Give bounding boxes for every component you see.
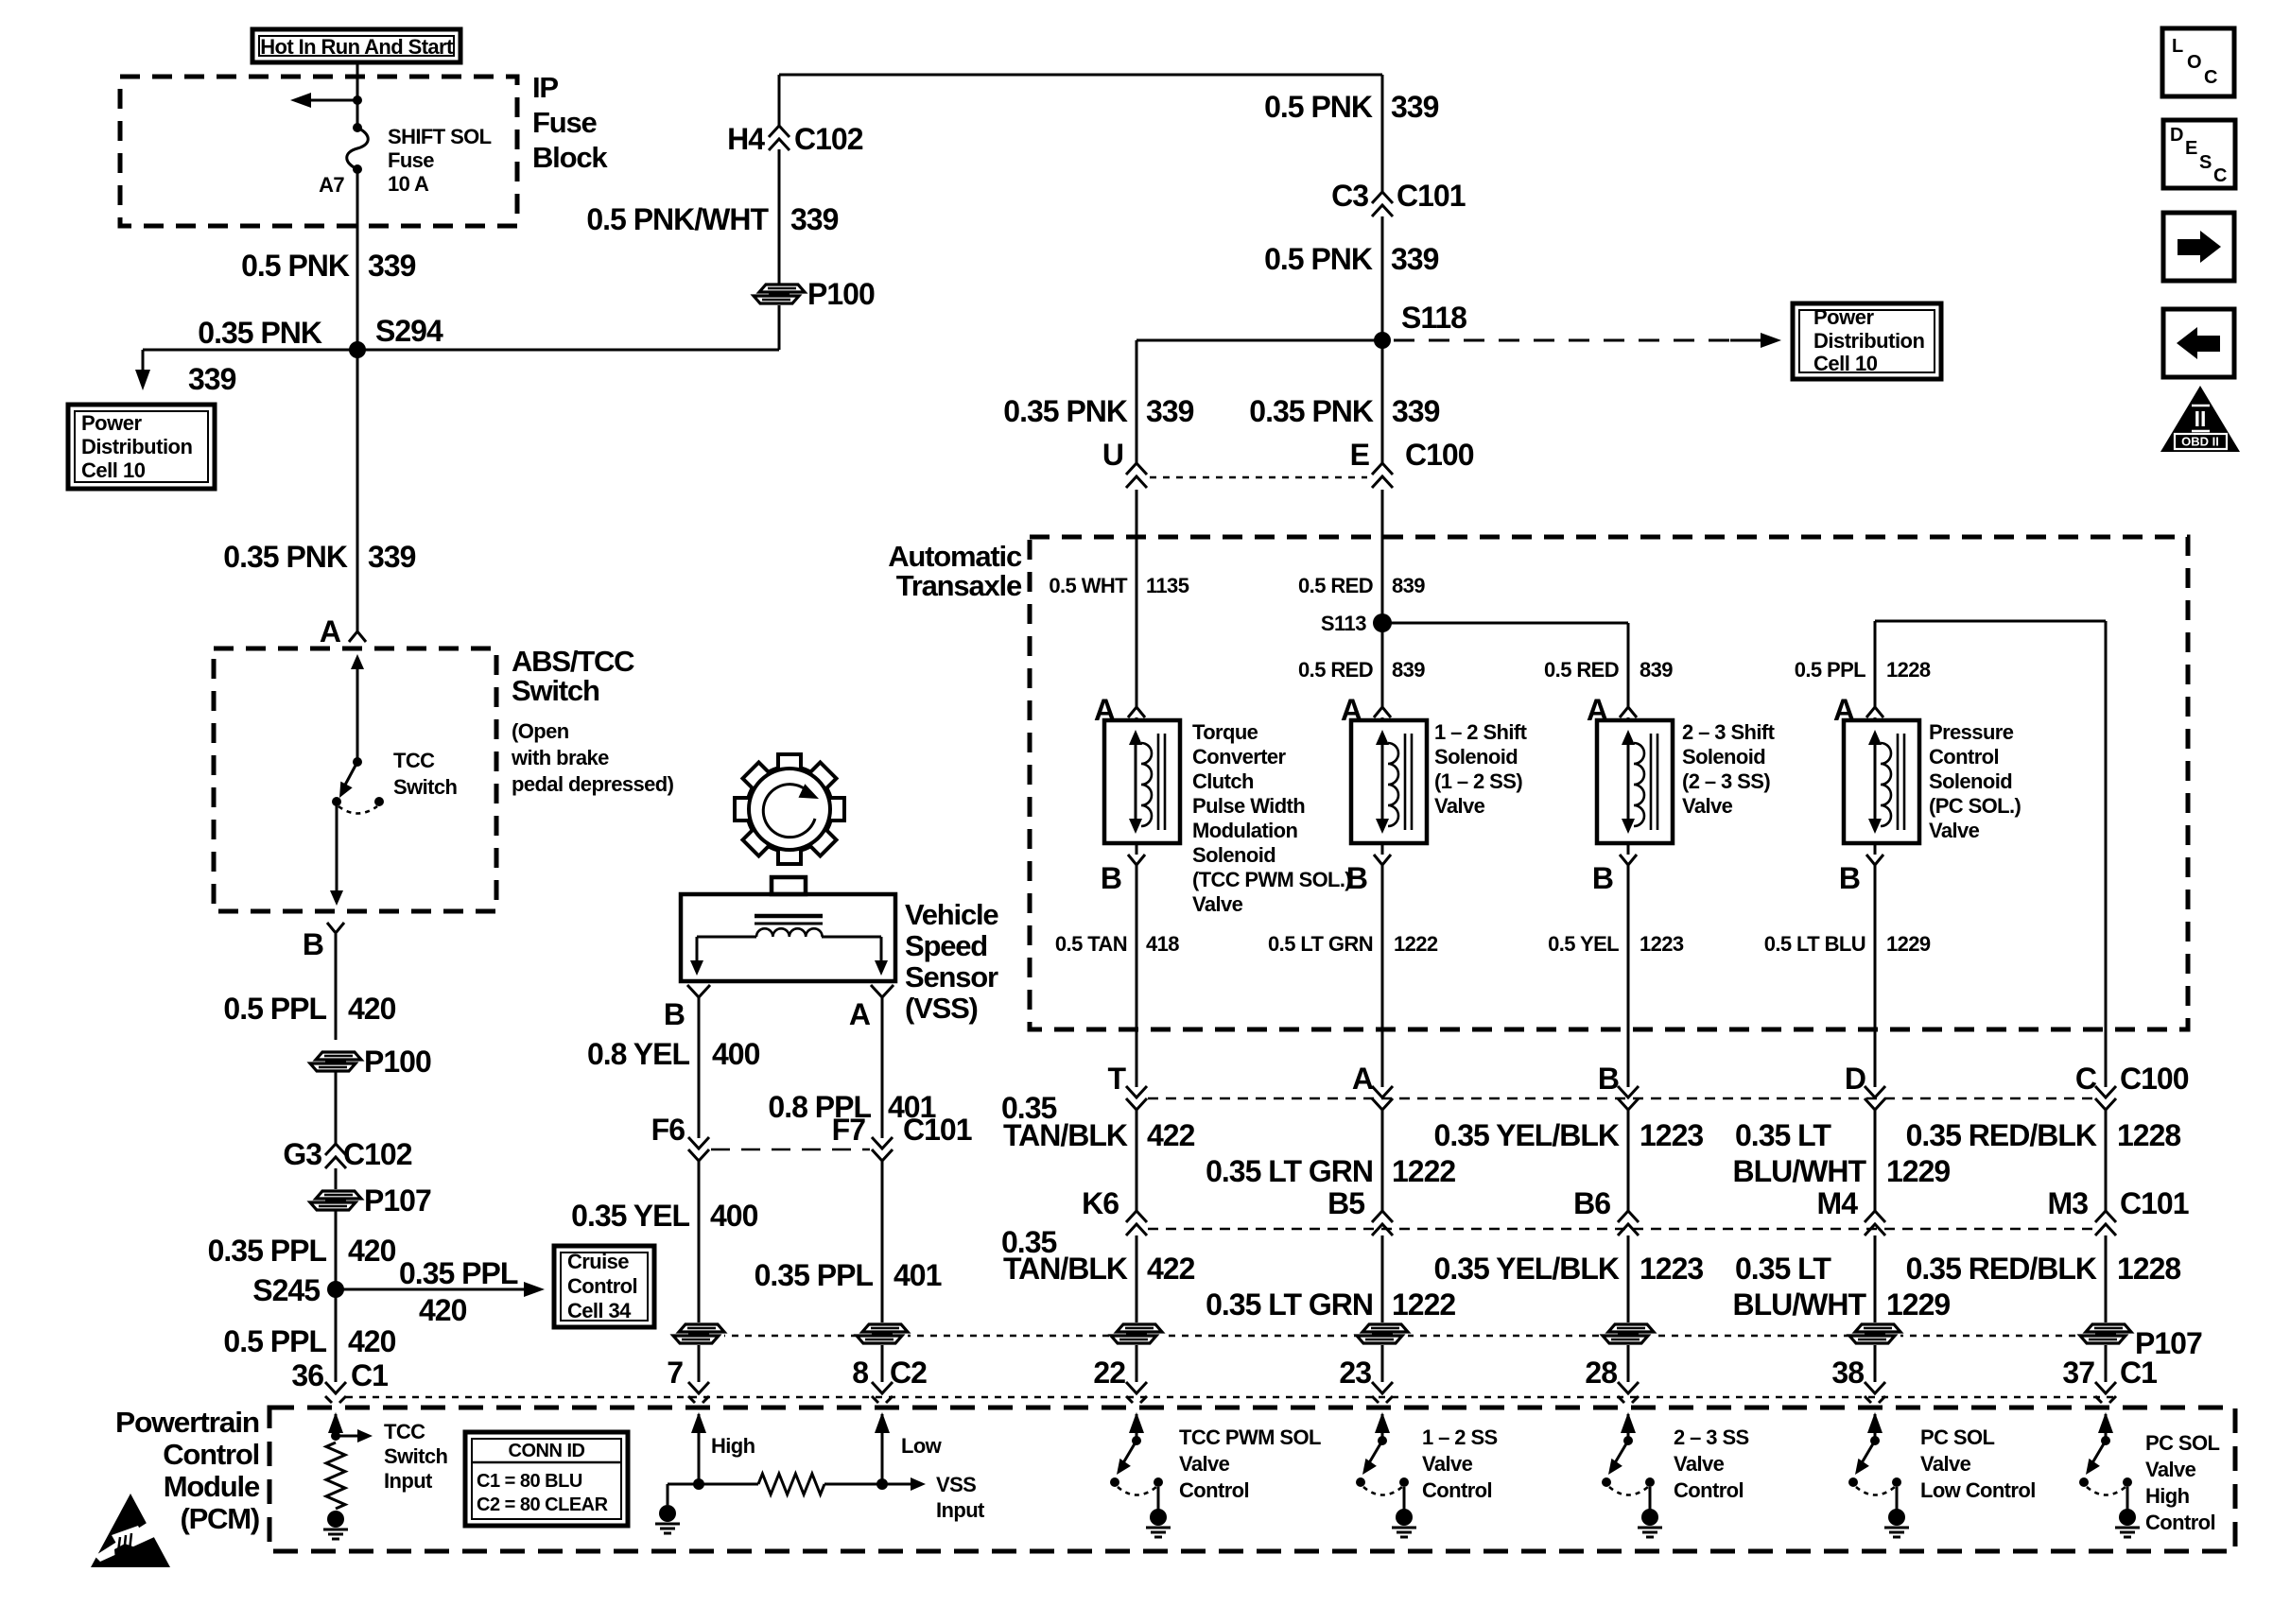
ESD sensitive symbol <box>91 1494 170 1567</box>
svg-text:23: 23 <box>1339 1356 1371 1390</box>
svg-text:0.5 LT GRN: 0.5 LT GRN <box>1268 932 1373 956</box>
label: Pressure Control Solenoid <box>1929 720 2021 842</box>
value label 0.5 PNK 339 <box>241 249 416 283</box>
svg-text:0.5 RED: 0.5 RED <box>1298 658 1373 682</box>
value label 0.35 PNK 339 (U column) <box>1003 394 1193 428</box>
svg-text:1223: 1223 <box>1640 1118 1703 1152</box>
svg-text:(PC SOL.): (PC SOL.) <box>1929 794 2021 818</box>
wire M4 to P107 <box>1874 1235 1877 1322</box>
svg-text:TAN/BLK: TAN/BLK <box>1003 1118 1128 1152</box>
svg-text:1223: 1223 <box>1640 1252 1703 1286</box>
PCM pin 37 (C1) <box>2062 1356 2157 1403</box>
label: 2-3 Shift Solenoid <box>1682 720 1776 818</box>
svg-text:0.5 PPL: 0.5 PPL <box>223 992 326 1026</box>
connector C100 pin T <box>1107 1062 1147 1110</box>
svg-text:C101: C101 <box>1397 179 1466 213</box>
svg-text:T: T <box>1107 1062 1126 1096</box>
VSS terminal B <box>664 985 710 1031</box>
in-line connector P107 (pin 38 wire) <box>1849 1322 1900 1345</box>
value label 0.5 RED 839 (above S113) <box>1298 574 1425 597</box>
wire 0.5 WHT 1135 U to TCC PWM solenoid <box>1136 490 1138 707</box>
svg-text:0.35 LT GRN: 0.35 LT GRN <box>1206 1154 1373 1188</box>
svg-text:0.5 TAN: 0.5 TAN <box>1055 932 1127 956</box>
connector C101 pin B6 <box>1573 1186 1639 1235</box>
label: SHIFT SOL Fuse 10 A <box>388 125 492 196</box>
wire S294 to left branch <box>135 350 357 390</box>
svg-text:Valve: Valve <box>1674 1452 1725 1476</box>
value label 0.35 LT GRN 1222 (row 1) <box>1206 1154 1455 1188</box>
wire P107 to pin 22 <box>1136 1345 1138 1382</box>
svg-text:22: 22 <box>1093 1356 1125 1390</box>
label: TCC Switch <box>393 749 457 799</box>
svg-text:Block: Block <box>532 141 608 174</box>
svg-text:2 – 3 Shift: 2 – 3 Shift <box>1682 720 1776 744</box>
svg-text:Control: Control <box>1422 1478 1492 1502</box>
svg-text:Cell 10: Cell 10 <box>81 458 146 482</box>
solenoid terminal A (2-3 SS) <box>1587 693 1637 727</box>
svg-text:Distribution: Distribution <box>81 435 192 458</box>
svg-text:S245: S245 <box>252 1273 320 1307</box>
icon: DESC <box>2163 120 2235 188</box>
icon: OBD II <box>2160 386 2240 452</box>
svg-text:VSS: VSS <box>936 1473 976 1496</box>
wire K6 to P107 <box>1136 1235 1138 1322</box>
svg-text:Valve: Valve <box>1929 819 1980 842</box>
wire 0.35 YEL 400 F6 to P107 <box>698 1161 701 1322</box>
splice S245 (junction) <box>252 1273 344 1307</box>
connector C101 mating face row (dotted) <box>1148 1228 2093 1231</box>
svg-text:0.35 YEL/BLK: 0.35 YEL/BLK <box>1434 1252 1620 1286</box>
vehicle speed sensor body <box>681 877 895 981</box>
wire switch to pin B <box>330 802 343 906</box>
value label 0.5 TAN 418 <box>1055 932 1179 956</box>
svg-text:C100: C100 <box>2120 1062 2189 1096</box>
svg-text:1228: 1228 <box>2117 1252 2180 1286</box>
Powertrain Control Module (dashed box) <box>269 1408 2235 1551</box>
label: 2-3 SS Valve Control <box>1674 1425 1749 1502</box>
svg-text:M3: M3 <box>2048 1186 2089 1220</box>
wire 0.5 TAN 418 to C100 T <box>1136 865 1138 1087</box>
svg-text:SHIFT SOL: SHIFT SOL <box>388 125 492 148</box>
svg-text:Control: Control <box>1929 745 1999 769</box>
svg-text:Control: Control <box>2145 1511 2215 1534</box>
svg-text:839: 839 <box>1392 658 1425 682</box>
svg-text:0.35 PPL: 0.35 PPL <box>399 1256 518 1290</box>
splice S118 (junction) <box>1374 301 1466 349</box>
value label 0.35 PPL 420 (cruise branch) <box>399 1256 518 1327</box>
svg-text:0.35 PPL: 0.35 PPL <box>755 1258 874 1292</box>
value label 0.5 RED 839 (2-3 SS column) <box>1544 658 1673 682</box>
svg-text:0.5 PNK: 0.5 PNK <box>1264 242 1373 276</box>
svg-text:Clutch: Clutch <box>1192 769 1254 793</box>
svg-text:Valve: Valve <box>1434 794 1485 818</box>
PCM driver: PC SOL valve low control (pin 38) <box>1848 1412 1909 1537</box>
svg-text:P100: P100 <box>807 277 875 311</box>
PCM pin 36 (C1) <box>291 1358 388 1403</box>
in-line connector P107 (pin 28 wire) <box>1603 1322 1654 1345</box>
svg-text:C102: C102 <box>794 122 863 156</box>
svg-text:0.5 LT BLU: 0.5 LT BLU <box>1764 932 1865 956</box>
svg-text:8: 8 <box>852 1356 868 1390</box>
value label 0.5 PNK 339 (above C101) <box>1264 90 1439 124</box>
wire P100 to C102 G3 <box>335 1072 338 1144</box>
value label 0.5 YEL 1223 <box>1548 932 1684 956</box>
svg-text:(PCM): (PCM) <box>180 1502 259 1535</box>
svg-text:0.35 YEL: 0.35 YEL <box>571 1199 689 1233</box>
svg-text:400: 400 <box>712 1037 760 1071</box>
wire S294 to P100 branch (right) <box>357 349 779 352</box>
svg-text:C101: C101 <box>903 1113 972 1147</box>
svg-text:B5: B5 <box>1327 1186 1364 1220</box>
svg-text:C2: C2 <box>890 1356 927 1390</box>
svg-text:IP: IP <box>532 71 558 104</box>
svg-text:0.35 YEL/BLK: 0.35 YEL/BLK <box>1434 1118 1620 1152</box>
svg-text:P107: P107 <box>364 1183 431 1218</box>
svg-text:1229: 1229 <box>1886 1154 1950 1188</box>
wire from Hot In Run feed into fuse block <box>356 62 359 128</box>
value label 0.35 PPL 401 <box>755 1258 942 1292</box>
svg-text:0.35 RED/BLK: 0.35 RED/BLK <box>1906 1252 2097 1286</box>
wire B5 to P107 <box>1381 1235 1384 1322</box>
svg-text:A: A <box>320 614 341 648</box>
PCM internal: VSS input circuit <box>655 1412 926 1533</box>
value label 0.35 LT GRN 1222 (row 2) <box>1206 1287 1455 1322</box>
svg-text:0.5 PNK/WHT: 0.5 PNK/WHT <box>586 202 769 236</box>
svg-text:420: 420 <box>348 992 396 1026</box>
svg-text:28: 28 <box>1585 1356 1617 1390</box>
wire C102 to P107 <box>335 1168 338 1190</box>
svg-text:C1 = 80 BLU: C1 = 80 BLU <box>477 1471 582 1492</box>
svg-text:C1: C1 <box>2120 1356 2157 1390</box>
solenoid L3: 2-3 Shift Solenoid valve <box>1597 720 1673 843</box>
svg-text:C3: C3 <box>1331 179 1368 213</box>
svg-text:S118: S118 <box>1401 301 1466 335</box>
svg-text:38: 38 <box>1831 1356 1864 1390</box>
svg-text:BLU/WHT: BLU/WHT <box>1732 1154 1866 1188</box>
ABS/TCC Switch (dashed box) <box>214 648 496 911</box>
svg-text:400: 400 <box>710 1199 758 1233</box>
in-line connector P107 (pin 8 wire) <box>857 1322 908 1345</box>
svg-text:Pressure: Pressure <box>1929 720 2014 744</box>
IP Fuse Block (dashed box) <box>120 77 517 226</box>
svg-text:B: B <box>303 927 323 961</box>
connector pin A (ABS/TCC switch) <box>320 614 366 648</box>
label: PC SOL Valve High Control <box>2145 1431 2219 1534</box>
label: Vehicle Speed Sensor (VSS) <box>905 898 998 1025</box>
svg-text:0.5 PNK: 0.5 PNK <box>1264 90 1373 124</box>
wire top bus down to C101 <box>1381 75 1384 192</box>
wire P107 to pin 28 <box>1627 1345 1630 1382</box>
node: CONN ID table <box>465 1432 628 1526</box>
value label 0.35 YEL/BLK 1223 (row 1) <box>1434 1118 1704 1152</box>
svg-text:CONN ID: CONN ID <box>509 1441 585 1461</box>
svg-text:Power: Power <box>81 411 142 435</box>
svg-text:2 – 3 SS: 2 – 3 SS <box>1674 1425 1749 1449</box>
svg-text:Control: Control <box>163 1438 259 1471</box>
svg-text:(VSS): (VSS) <box>905 992 978 1025</box>
svg-text:G3: G3 <box>283 1137 321 1171</box>
svg-text:A: A <box>849 997 871 1031</box>
svg-text:Power: Power <box>1813 305 1874 329</box>
svg-text:Switch: Switch <box>393 775 457 799</box>
connector C102 pin G3 <box>283 1137 411 1171</box>
svg-text:0.35 PPL: 0.35 PPL <box>208 1234 327 1268</box>
node: Cruise Control Cell 34 <box>554 1246 654 1327</box>
wire C101 to S118 <box>1381 216 1384 340</box>
value label 0.35 RED/BLK 1228 (row 2) <box>1906 1252 2181 1286</box>
wire P107 to pin 37 <box>2105 1345 2108 1382</box>
svg-text:TCC: TCC <box>393 749 435 772</box>
svg-text:E: E <box>2185 138 2197 159</box>
value label 0.35 TAN/BLK 422 (row 1) <box>1001 1091 1195 1152</box>
wire S118 down to C100 pin E <box>1381 340 1384 463</box>
svg-text:High: High <box>2145 1484 2190 1508</box>
svg-text:B6: B6 <box>1573 1186 1610 1220</box>
svg-text:Speed: Speed <box>905 929 987 962</box>
wire S113 down to 1-2 shift solenoid <box>1381 623 1384 707</box>
svg-text:37: 37 <box>2062 1356 2094 1390</box>
PCM pin 28 (C1) <box>1585 1356 1639 1403</box>
svg-text:339: 339 <box>188 362 236 396</box>
svg-text:Distribution: Distribution <box>1813 329 1924 353</box>
in-line connector P107 (pin 22 wire) <box>1111 1322 1162 1345</box>
svg-text:Powertrain: Powertrain <box>115 1406 259 1439</box>
svg-text:D: D <box>1845 1062 1865 1096</box>
svg-text:C: C <box>2075 1062 2097 1096</box>
svg-text:Valve: Valve <box>1920 1452 1971 1476</box>
svg-text:Valve: Valve <box>1682 794 1733 818</box>
wire 0.8 PPL 401 VSS A to C101 F7 <box>881 1008 884 1138</box>
PCM pin 8 (C2) <box>852 1356 927 1403</box>
connector C100 pin U <box>1102 438 1147 488</box>
svg-text:Hot In Run And Start: Hot In Run And Start <box>260 35 454 59</box>
svg-text:1229: 1229 <box>1886 932 1931 956</box>
svg-text:401: 401 <box>894 1258 942 1292</box>
svg-text:Transaxle: Transaxle <box>896 569 1022 602</box>
wire A to B5 <box>1381 1110 1384 1211</box>
svg-text:Input: Input <box>384 1469 433 1493</box>
svg-text:0.35 LT: 0.35 LT <box>1735 1118 1831 1152</box>
connector C101 pin B5 <box>1327 1186 1393 1235</box>
label: VSS Input <box>936 1473 985 1522</box>
svg-text:OBD II: OBD II <box>2181 435 2219 449</box>
solenoid terminal B (PC SOL) <box>1839 843 1883 895</box>
svg-text:339: 339 <box>1146 394 1194 428</box>
svg-text:339: 339 <box>1391 90 1439 124</box>
wire P107 to pin 38 <box>1874 1345 1877 1382</box>
in-line connector P107 (PPL 420) <box>310 1183 431 1218</box>
value label 0.35 YEL 400 <box>571 1199 757 1233</box>
svg-text:Converter: Converter <box>1192 745 1287 769</box>
svg-text:Valve: Valve <box>2145 1458 2196 1481</box>
value label 0.35 LT BLU/WHT 1229 (row 1) <box>1732 1118 1950 1188</box>
svg-text:1223: 1223 <box>1640 932 1684 956</box>
value label 0.5 LT BLU 1229 <box>1764 932 1931 956</box>
in-line connector P107 (pin 7 wire) <box>673 1322 724 1345</box>
svg-text:Pulse Width: Pulse Width <box>1192 794 1305 818</box>
svg-text:D: D <box>2170 125 2183 146</box>
value label 0.35 PPL 420 <box>208 1234 396 1268</box>
svg-text:Control: Control <box>567 1274 637 1298</box>
label: IP Fuse Block <box>532 71 608 174</box>
wire 0.5 PNK/WHT 339 P100 to C102 <box>778 149 781 284</box>
svg-text:422: 422 <box>1147 1252 1195 1286</box>
value label 0.35 PNK 339 (switch feed) <box>223 540 415 574</box>
svg-text:(1 – 2 SS): (1 – 2 SS) <box>1434 769 1522 793</box>
value label 0.35 RED/BLK 1228 (row 1) <box>1906 1118 2181 1152</box>
solenoid terminal B (TCC PWM) <box>1101 843 1145 895</box>
PCM pin 23 (C1) <box>1339 1356 1393 1403</box>
VSS terminal A <box>849 985 894 1031</box>
wire S118 branch to U column <box>1136 340 1382 463</box>
svg-text:Automatic: Automatic <box>888 540 1022 573</box>
in-line connector P100 <box>754 277 875 311</box>
svg-text:1 – 2 SS: 1 – 2 SS <box>1422 1425 1498 1449</box>
node: Power Distribution Cell 10 (left) <box>68 405 215 489</box>
svg-text:1229: 1229 <box>1886 1287 1950 1322</box>
PCM pin 7 (C2) <box>667 1356 709 1403</box>
svg-text:1135: 1135 <box>1146 574 1189 597</box>
svg-text:839: 839 <box>1640 658 1673 682</box>
wire D to M4 <box>1874 1110 1877 1211</box>
wire M3 to P107 <box>2105 1235 2108 1322</box>
wire P107 to pin 23 <box>1381 1345 1384 1382</box>
value label 0.5 WHT 1135 <box>1049 574 1189 597</box>
wire 0.5 LT BLU 1229 to C100 D <box>1874 865 1877 1087</box>
svg-text:BLU/WHT: BLU/WHT <box>1732 1287 1866 1322</box>
svg-text:PC SOL: PC SOL <box>2145 1431 2219 1455</box>
solenoid terminal B (2-3 SS) <box>1592 843 1637 895</box>
svg-text:418: 418 <box>1146 932 1179 956</box>
wire 0.35 PNK 339 S294 down to switch A <box>356 350 359 631</box>
in-line connector P107 (pin 23 wire) <box>1357 1322 1408 1345</box>
svg-text:with brake: with brake <box>511 746 609 769</box>
solenoid L1: Torque Converter Clutch PWM solenoid valve <box>1104 720 1180 843</box>
connector C100 pin B (lower) <box>1598 1062 1639 1110</box>
branch arrow to other circuits (left) <box>290 93 362 108</box>
svg-text:0.5 PNK: 0.5 PNK <box>241 249 350 283</box>
svg-text:420: 420 <box>348 1234 396 1268</box>
wire P107 to pin 7 <box>698 1345 701 1382</box>
svg-text:Valve: Valve <box>1179 1452 1230 1476</box>
wire S245 branch to cruise control <box>336 1282 545 1297</box>
label: Automatic Transaxle <box>888 540 1022 602</box>
svg-text:1228: 1228 <box>2117 1118 2180 1152</box>
svg-text:(TCC PWM SOL.): (TCC PWM SOL.) <box>1192 868 1351 891</box>
svg-text:C: C <box>2213 165 2227 186</box>
svg-text:(Open: (Open <box>512 719 569 743</box>
solenoid terminal A (PC SOL) <box>1833 693 1883 727</box>
connector C102 pin H4 <box>727 122 863 156</box>
wire 0.35 PPL 401 F7 to P107 <box>881 1161 884 1322</box>
svg-text:Sensor: Sensor <box>905 960 998 993</box>
svg-text:839: 839 <box>1392 574 1425 597</box>
svg-text:0.35 PNK: 0.35 PNK <box>223 540 348 574</box>
label: ABS/TCC Switch (Open with brake pedal depressed) <box>511 645 674 796</box>
svg-text:1222: 1222 <box>1392 1154 1455 1188</box>
svg-text:Cell 10: Cell 10 <box>1813 352 1878 375</box>
wire 0.5 PPL 420 B to P100 <box>335 934 338 1040</box>
svg-text:339: 339 <box>1392 394 1440 428</box>
connector C101 pin M4 <box>1817 1186 1885 1235</box>
svg-text:Solenoid: Solenoid <box>1682 745 1765 769</box>
wire 0.5 PNK 339 fuse to S294 <box>356 169 359 350</box>
connector C101 pin C3 <box>1331 179 1466 216</box>
svg-text:P100: P100 <box>364 1045 431 1079</box>
solenoid L2: 1-2 Shift Solenoid valve <box>1351 720 1427 843</box>
connector C101 pin M3 <box>2048 1186 2189 1235</box>
svg-text:A: A <box>1352 1062 1374 1096</box>
label: PC SOL Valve Low Control <box>1920 1425 2036 1502</box>
svg-text:O: O <box>2187 52 2201 73</box>
solenoid terminal A (TCC PWM) <box>1094 693 1145 727</box>
PCM driver: 2-3 SS valve control (pin 28) <box>1602 1412 1662 1537</box>
svg-text:S113: S113 <box>1321 612 1366 635</box>
splice S113 (junction) <box>1321 612 1392 635</box>
svg-text:TAN/BLK: TAN/BLK <box>1003 1252 1128 1286</box>
svg-text:B: B <box>1598 1062 1619 1096</box>
PCM internal: TCC switch input circuit <box>323 1412 373 1539</box>
svg-text:Cruise: Cruise <box>567 1250 629 1273</box>
PCM connector face row C1/C2 (dotted) <box>346 1396 2118 1399</box>
value label 0.5 PPL 1228 <box>1795 658 1931 682</box>
connector C101 pin F6 <box>651 1113 709 1161</box>
svg-text:Low: Low <box>901 1434 943 1458</box>
connector C100 mating face (dotted) <box>1150 476 1367 479</box>
connector C101 pin F7 <box>832 1113 972 1161</box>
svg-text:422: 422 <box>1147 1118 1195 1152</box>
svg-text:B: B <box>1839 861 1860 895</box>
value label 0.5 LT GRN 1222 <box>1268 932 1438 956</box>
svg-text:0.5 RED: 0.5 RED <box>1544 658 1619 682</box>
splice S294 (junction) <box>349 314 443 358</box>
icon: LOC <box>2162 28 2234 96</box>
svg-text:ABS/TCC: ABS/TCC <box>512 645 634 678</box>
svg-text:M4: M4 <box>1817 1186 1859 1220</box>
svg-text:Low Control: Low Control <box>1920 1478 2036 1502</box>
svg-text:Module: Module <box>164 1470 260 1503</box>
value label 0.35 LT BLU/WHT 1229 (row 2) <box>1732 1252 1950 1322</box>
svg-text:Solenoid: Solenoid <box>1929 769 2012 793</box>
PCM pin 38 (C1) <box>1831 1356 1885 1403</box>
svg-text:TCC PWM SOL: TCC PWM SOL <box>1179 1425 1321 1449</box>
svg-text:1 – 2 Shift: 1 – 2 Shift <box>1434 720 1528 744</box>
wire S113 branch to 2-3 shift solenoid <box>1382 623 1628 707</box>
svg-text:U: U <box>1102 438 1123 472</box>
svg-text:Valve: Valve <box>1422 1452 1473 1476</box>
svg-text:Modulation: Modulation <box>1192 819 1297 842</box>
value label 0.35 YEL/BLK 1223 (row 2) <box>1434 1252 1704 1286</box>
svg-text:0.8 YEL: 0.8 YEL <box>587 1037 689 1071</box>
svg-text:Solenoid: Solenoid <box>1192 843 1275 867</box>
svg-text:Control: Control <box>1179 1478 1249 1502</box>
connector C101 mating face (dashed) <box>711 1149 870 1151</box>
svg-text:0.35 PNK: 0.35 PNK <box>1003 394 1128 428</box>
value label 0.5 PPL 420 (below switch) <box>223 992 395 1026</box>
svg-text:S: S <box>2199 152 2212 173</box>
wire B6 to P107 <box>1627 1235 1630 1322</box>
solenoid terminal A (1-2 SS) <box>1341 693 1391 727</box>
svg-text:339: 339 <box>790 202 839 236</box>
value label 0.35 TAN/BLK 422 (row 2) <box>1001 1225 1195 1286</box>
svg-text:0.35 PNK: 0.35 PNK <box>198 316 322 350</box>
fuse F: SHIFT SOL Fuse 10 A (symbol) <box>347 123 369 174</box>
svg-text:339: 339 <box>368 540 416 574</box>
connector C101 pin K6 <box>1082 1186 1147 1235</box>
icon: forward arrow <box>2163 213 2234 281</box>
dashed wire S118 to Power Distribution (right) <box>1394 333 1781 348</box>
bulkhead P107 row (dotted face) <box>719 1335 2118 1338</box>
